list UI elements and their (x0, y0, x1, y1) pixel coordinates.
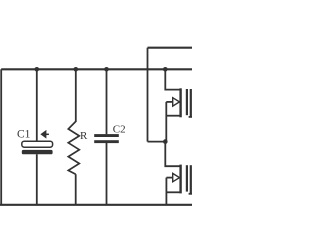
transistor Q1 right lead bar (190, 89, 192, 117)
wire: Q2 bottom source lead (166, 191, 179, 193)
wire: C1 bottom lead (36, 154, 38, 205)
capacitor C1 negative plate (solid) (22, 150, 53, 154)
wire: C2 top lead (106, 69, 108, 134)
capacitor C2 top plate (94, 134, 119, 137)
svg-text:R: R (80, 130, 88, 142)
wire: top supply bus (1, 68, 192, 70)
capacitor C1 positive plate (hollow) (22, 141, 53, 147)
capacitor C2 bottom plate (94, 140, 119, 143)
wire: half-bridge riser x=147.5 (147, 48, 149, 142)
wire: C2 bottom lead (106, 143, 108, 205)
wire: C1 top lead (36, 69, 38, 141)
wire: R bottom lead (75, 174, 77, 205)
transistor Q1 gate bar (179, 88, 181, 117)
wire: link to node A (148, 141, 166, 143)
wire: left edge drop (0, 69, 2, 205)
svg-text:C1: C1 (17, 128, 31, 140)
wire: Q1 gate stub to edge (189, 116, 192, 118)
node: R bus junction (74, 67, 79, 72)
wire: R top lead (75, 69, 77, 122)
transistor Q2 gate bar (179, 165, 181, 194)
transistor Q2 channel bar (186, 165, 188, 191)
wire: Q1 source join vertical down to node A (165, 102, 167, 142)
wire: Q2 gate stub to edge (189, 193, 192, 195)
node: C2 bus junction (104, 67, 109, 72)
transistor Q2 body arrow (173, 173, 180, 181)
wire: Q2 body arrow lead (166, 177, 173, 179)
wire: top rail to right edge (148, 47, 193, 49)
wire: Q1 drain L-lead (165, 69, 179, 89)
node: Q1 bus junction (163, 67, 168, 72)
wire: Q1 body arrow lead (166, 101, 173, 103)
C1 polarity mark (41, 131, 49, 138)
wire: Q2 source join vertical to bottom rail (165, 178, 167, 205)
resistor R zigzag (68, 122, 79, 175)
transistor Q1 channel bar (186, 89, 188, 115)
wire: node A down to Q2 drain lead (165, 142, 179, 167)
node A: half-bridge midpoint (163, 139, 168, 144)
wire: bottom rail (0, 204, 192, 206)
wire: Q1 bottom source lead (166, 115, 179, 117)
transistor Q2 right lead bar (190, 165, 192, 194)
svg-text:C2: C2 (113, 123, 126, 135)
node: C1 bus junction (35, 67, 40, 72)
transistor Q1 body arrow (173, 98, 180, 106)
